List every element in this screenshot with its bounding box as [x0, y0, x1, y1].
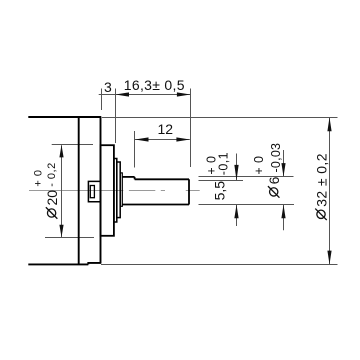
arrow 16,3 left	[116, 92, 130, 96]
arrow dia20 top	[59, 145, 63, 158]
extension line shaft bottom	[199, 204, 295, 206]
arrow 5,5 bottom	[234, 205, 238, 219]
body joint line	[78, 117, 80, 264]
body end-cap bottom edge	[88, 263, 101, 265]
svg-text:+ 0: + 0	[32, 169, 44, 186]
dimension line dia32	[329, 118, 331, 265]
svg-text:+ 0: + 0	[252, 156, 266, 175]
svg-text:-0,03: -0,03	[269, 143, 283, 173]
shaft end face	[188, 179, 190, 204]
motor body outline	[28, 117, 101, 264]
svg-text:6: 6	[266, 176, 282, 184]
bearing disc 3	[117, 162, 120, 218]
shaft flat top edge	[135, 178, 189, 180]
arrow 12 left	[135, 137, 149, 141]
body right face	[100, 117, 102, 263]
dimension line dia6	[283, 150, 285, 230]
body top edge	[28, 116, 101, 118]
body can bottom edge	[28, 263, 88, 265]
extension line flat start	[134, 131, 136, 168]
svg-text:32 ± 0,2: 32 ± 0,2	[313, 153, 329, 207]
shaft	[122, 177, 189, 205]
arrow dia32 bottom	[327, 251, 331, 265]
label dia20	[44, 190, 60, 219]
svg-text:- 0,2: - 0,2	[46, 162, 58, 187]
bearing disc 2	[114, 159, 117, 223]
extension line dia20 top	[52, 144, 93, 146]
shaft collar ring	[120, 173, 122, 206]
svg-text:-0,1: -0,1	[217, 152, 231, 175]
label dia6	[266, 176, 282, 197]
dimension line 5,5	[236, 154, 238, 227]
pinion nub inner	[90, 186, 94, 198]
shaft flat step	[134, 177, 136, 179]
arrow dia6 top	[281, 163, 285, 177]
label dia32 +/- 0,2	[313, 153, 329, 220]
dimension line dia20	[61, 145, 63, 237]
extension line flange face	[115, 89, 117, 144]
centerline	[29, 190, 200, 192]
dimension line 12	[135, 139, 190, 141]
svg-text:5,5: 5,5	[211, 181, 227, 201]
pinion nub outer	[88, 181, 99, 201]
extension line flat 5.5 top	[199, 180, 244, 182]
shaft full-diameter top edge	[122, 176, 134, 178]
dimension line 3 and 16,3	[99, 94, 191, 96]
extension line dia20 bottom	[45, 237, 94, 239]
svg-text:16,3± 0,5: 16,3± 0,5	[124, 77, 185, 93]
svg-text:3: 3	[104, 79, 112, 95]
arrow dia20 bottom	[59, 225, 63, 238]
arrow 12 right	[176, 137, 190, 141]
svg-text:20: 20	[44, 190, 60, 206]
arrow 16,3 right	[177, 92, 191, 96]
extension line dia32 top	[102, 117, 338, 119]
shaft bottom edge	[122, 204, 189, 206]
extension line dia32 bottom	[101, 264, 338, 266]
extension line dim3 left	[101, 89, 103, 111]
extension line shaft end	[190, 89, 192, 168]
svg-text:12: 12	[158, 121, 174, 137]
extension line dia6 top	[199, 176, 294, 178]
flange dia20	[101, 145, 114, 236]
arrow dia6 bottom	[281, 205, 285, 219]
arrow dia32 top	[327, 117, 331, 131]
arrow 5,5 top	[234, 165, 238, 181]
